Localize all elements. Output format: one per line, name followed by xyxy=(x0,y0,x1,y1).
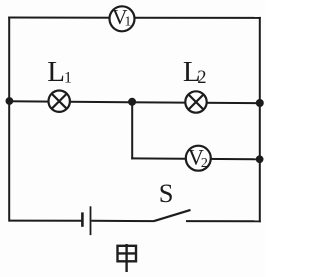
label L2 xyxy=(183,56,207,88)
switch S xyxy=(154,210,191,221)
wire right vertical xyxy=(259,17,261,222)
wire left vertical xyxy=(8,17,10,222)
label 甲 xyxy=(118,244,137,272)
svg-text:2: 2 xyxy=(197,68,206,88)
battery xyxy=(82,206,90,235)
node A (left junction) xyxy=(5,97,13,105)
wire bottom left xyxy=(9,220,81,222)
lamp L2 xyxy=(185,91,206,112)
voltmeter V1 xyxy=(110,5,135,31)
wire top xyxy=(8,17,261,19)
svg-text:S: S xyxy=(159,178,174,208)
wire V2 branch vertical xyxy=(131,102,133,160)
voltmeter V2 xyxy=(186,144,211,171)
svg-text:2: 2 xyxy=(201,156,208,171)
svg-text:L: L xyxy=(47,56,65,88)
lamp L1 xyxy=(49,91,70,112)
wire bottom middle xyxy=(91,220,154,222)
wire bottom right xyxy=(186,220,261,222)
label L1 xyxy=(47,56,72,88)
wire V2 branch horizontal xyxy=(131,157,260,160)
node D (V2 right junction) xyxy=(256,155,264,163)
wire middle xyxy=(9,101,260,103)
svg-text:1: 1 xyxy=(64,70,72,87)
node C (right middle junction) xyxy=(256,99,264,107)
node B (V2 tap junction) xyxy=(128,98,136,106)
svg-text:1: 1 xyxy=(125,13,132,28)
